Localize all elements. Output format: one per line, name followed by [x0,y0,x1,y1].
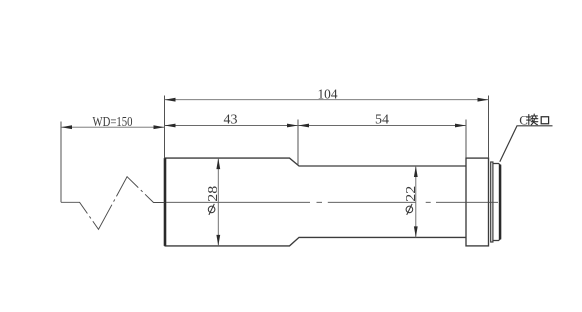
dimension 54 right arrow [455,124,466,128]
dimension phi22 bottom arrow [414,226,418,237]
extension line flange rear [488,96,490,159]
dimension 54 left arrow [298,124,309,128]
dimension WD=150 right arrow [154,125,165,129]
dimension 43 right arrow [287,124,298,128]
svg-text:22: 22 [404,186,419,202]
lens barrel phi28 outline [165,158,467,246]
dimension phi28 line [217,158,219,246]
extension line flange front [465,120,467,159]
dimension WD=150 left arrow [61,125,72,129]
centerline axis [166,201,498,203]
label glyph jie [527,114,538,125]
svg-text:54: 54 [375,112,389,127]
dimension 43 line [165,125,299,127]
thread right thick edge [499,165,501,240]
C-mount thread section [493,164,501,241]
leader line C-mount [500,126,553,162]
dimension phi28 label [206,186,221,215]
dimension phi28 bottom arrow [216,235,220,246]
svg-text:WD=150: WD=150 [93,115,133,130]
lens front face thick edge [164,158,167,246]
svg-text:28: 28 [206,186,221,202]
dimension 104 right arrow [478,98,489,102]
svg-text:43: 43 [224,112,238,127]
svg-text:104: 104 [318,88,338,103]
dimension phi22 label [404,186,419,215]
extension line left object plane [60,122,62,203]
extension line body front [164,96,166,159]
dimension 54 line [298,125,466,127]
centerline zigzag object break [61,177,165,230]
thread relief ring [491,162,493,242]
flange at rear [466,158,489,246]
dimension 104 left arrow [165,98,176,102]
dimension phi22 line [415,166,417,238]
dimension phi28 top arrow [216,158,220,169]
extension line step [297,120,299,166]
dimension 104 line [165,99,489,101]
dimension phi22 top arrow [414,166,418,177]
dimension 43 left arrow [165,124,176,128]
label glyph kou [541,117,548,124]
dimension WD=150 line [61,126,165,128]
